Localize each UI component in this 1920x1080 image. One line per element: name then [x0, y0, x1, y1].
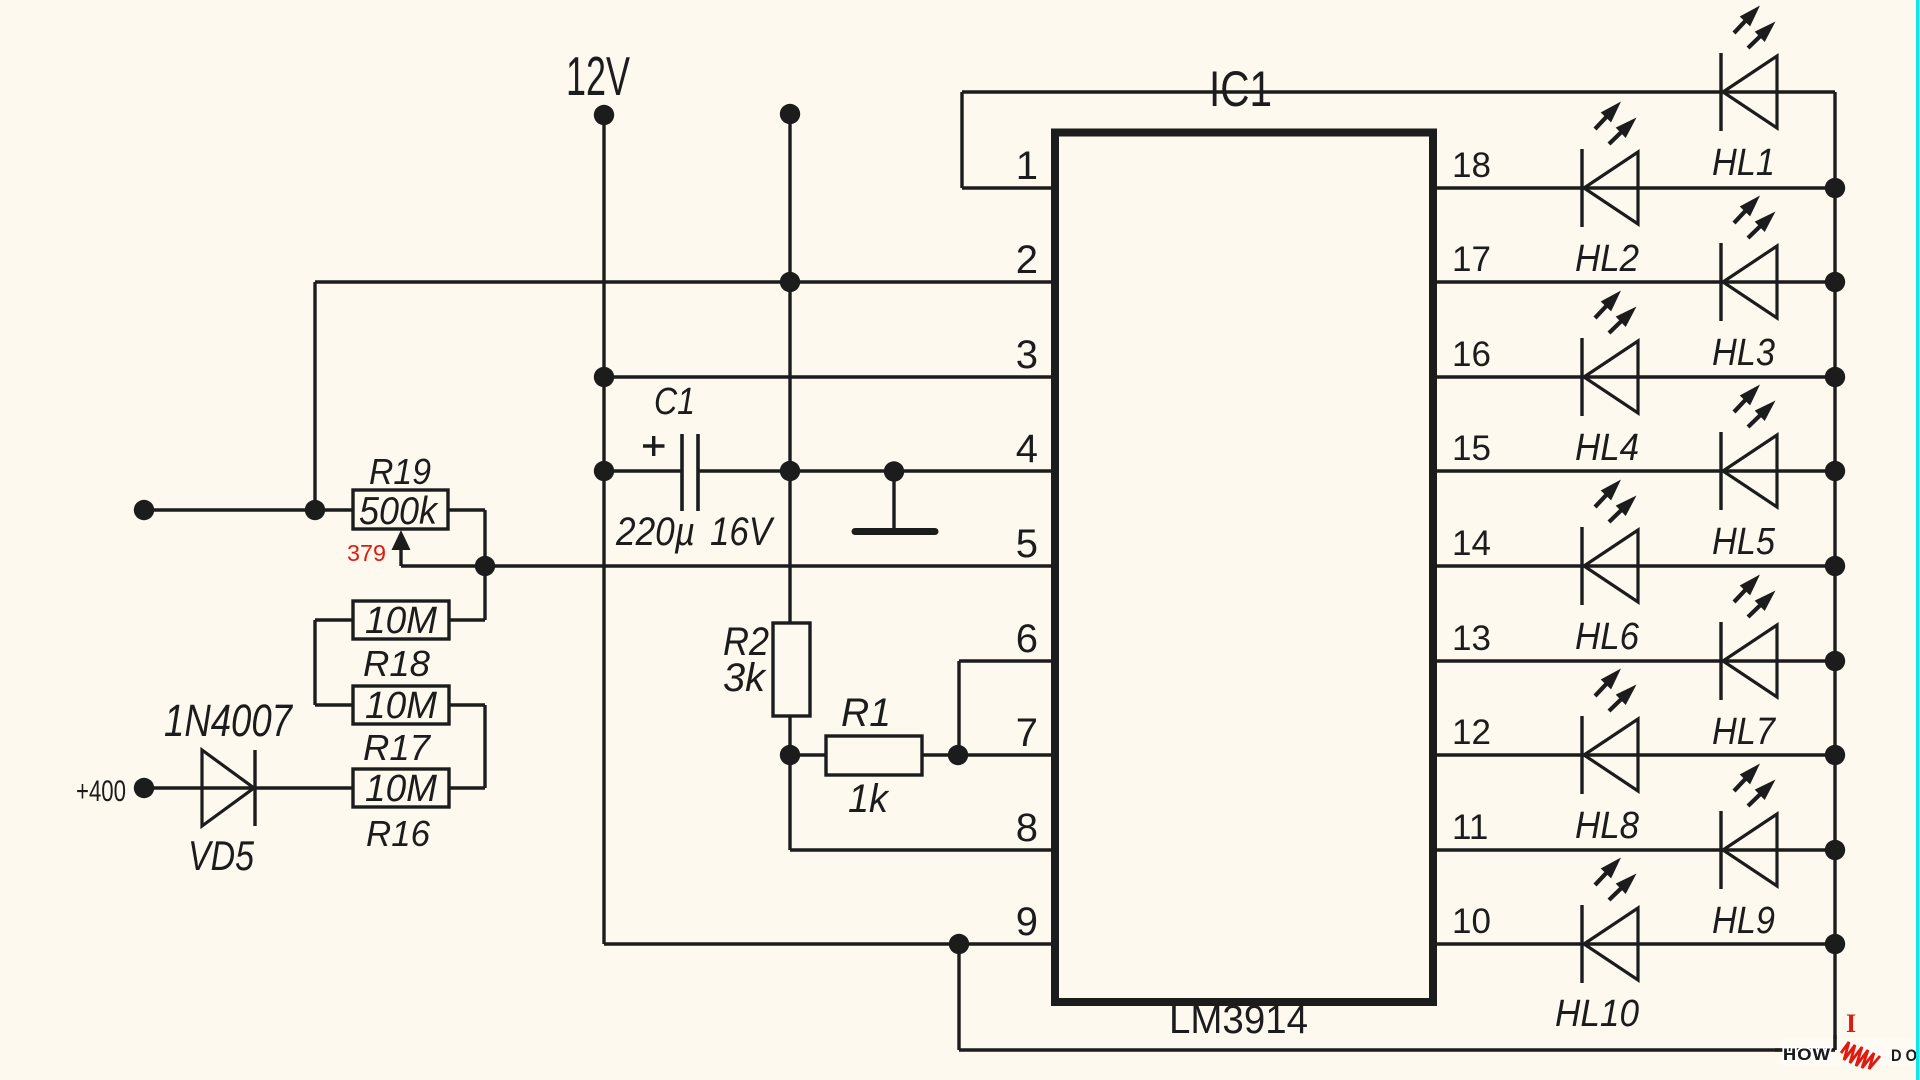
- svg-text:10M: 10M: [365, 600, 437, 642]
- svg-text:HL9: HL9: [1712, 900, 1775, 942]
- svg-text:2: 2: [1016, 238, 1038, 282]
- svg-text:R16: R16: [366, 813, 431, 854]
- svg-text:9: 9: [1016, 900, 1038, 944]
- svg-text:HL7: HL7: [1712, 711, 1777, 753]
- svg-text:1N4007: 1N4007: [164, 695, 294, 746]
- svg-text:3: 3: [1016, 333, 1038, 377]
- svg-text:+400: +400: [76, 775, 126, 808]
- svg-text:3k: 3k: [723, 656, 767, 700]
- svg-text:500k: 500k: [359, 490, 439, 533]
- svg-text:16: 16: [1452, 335, 1491, 374]
- svg-text:1: 1: [1016, 144, 1038, 188]
- svg-text:10M: 10M: [365, 685, 437, 727]
- svg-text:14: 14: [1452, 524, 1491, 563]
- svg-text:17: 17: [1452, 240, 1491, 279]
- svg-text:HL4: HL4: [1575, 427, 1639, 469]
- svg-text:4: 4: [1016, 427, 1038, 471]
- svg-text:HOW: HOW: [1783, 1045, 1831, 1064]
- svg-text:220µ: 220µ: [615, 510, 695, 554]
- svg-text:IC1: IC1: [1209, 61, 1272, 117]
- svg-text:10M: 10M: [365, 768, 437, 810]
- svg-text:13: 13: [1452, 619, 1491, 658]
- svg-text:10: 10: [1452, 902, 1491, 941]
- svg-text:18: 18: [1452, 146, 1491, 185]
- svg-text:R19: R19: [369, 451, 431, 492]
- svg-text:12: 12: [1452, 713, 1491, 752]
- svg-text:16V: 16V: [710, 510, 775, 554]
- svg-text:HL1: HL1: [1712, 142, 1775, 184]
- svg-text:LM3914: LM3914: [1169, 998, 1308, 1042]
- svg-text:12V: 12V: [566, 45, 630, 107]
- svg-text:R17: R17: [363, 727, 432, 768]
- svg-text:R1: R1: [841, 691, 891, 735]
- svg-text:15: 15: [1452, 429, 1491, 468]
- svg-text:HL5: HL5: [1712, 521, 1776, 563]
- svg-text:5: 5: [1016, 522, 1038, 566]
- svg-text:HL6: HL6: [1575, 616, 1640, 658]
- svg-text:HL10: HL10: [1555, 993, 1639, 1035]
- svg-text:R18: R18: [363, 643, 430, 684]
- svg-text:11: 11: [1452, 808, 1488, 847]
- svg-text:379: 379: [347, 540, 386, 566]
- svg-text:6: 6: [1016, 617, 1038, 661]
- svg-text:HL8: HL8: [1575, 805, 1639, 847]
- svg-text:7: 7: [1016, 711, 1038, 755]
- svg-text:D O: D O: [1891, 1046, 1917, 1065]
- svg-text:C1: C1: [654, 381, 695, 423]
- svg-text:1k: 1k: [848, 777, 890, 821]
- svg-text:I: I: [1846, 1009, 1856, 1038]
- svg-text:8: 8: [1016, 806, 1038, 850]
- svg-text:HL2: HL2: [1575, 238, 1639, 280]
- svg-text:HL3: HL3: [1712, 332, 1775, 374]
- svg-text:VD5: VD5: [188, 832, 255, 879]
